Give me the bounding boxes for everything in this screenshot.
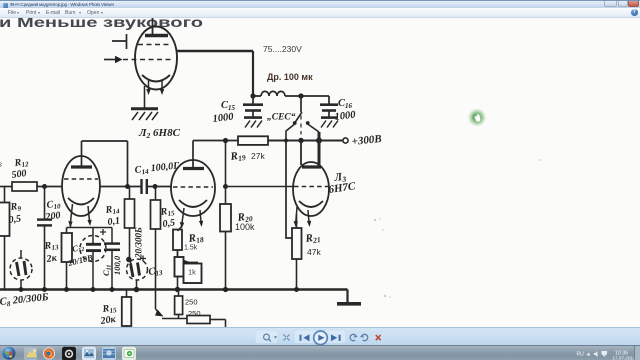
ground bus rail xyxy=(0,288,348,291)
node L3 anode1 on rail xyxy=(298,138,303,143)
label C13 xyxy=(148,265,164,279)
wire switch-left contact down to R21 xyxy=(286,141,293,239)
node R19 left branch xyxy=(223,138,228,143)
label C11 100,0 (rotated) xyxy=(101,255,122,276)
svg-text:С8 20/300Б: С8 20/300Б xyxy=(0,292,49,309)
wire L2a anode to C14 node xyxy=(82,141,128,187)
tube L2b envelope xyxy=(171,160,215,216)
menu bar xyxy=(0,8,640,18)
wire grid row to L3 xyxy=(226,186,295,188)
tube V1 grid-cap terminal xyxy=(112,34,127,49)
svg-text:R19: R19 xyxy=(229,149,247,164)
inductor L1 (choke) xyxy=(253,91,329,96)
node at C15 top xyxy=(250,93,255,98)
capacitor C15 xyxy=(243,96,263,117)
svg-text:250: 250 xyxy=(188,309,201,318)
label C14 100,0 xyxy=(134,160,181,177)
label R12 500 xyxy=(11,156,30,181)
taskbar xyxy=(0,345,640,360)
capacitor C10 xyxy=(37,187,52,291)
svg-text:47k: 47k xyxy=(307,247,321,257)
callout box 1k xyxy=(184,260,202,283)
svg-text:+300В: +300В xyxy=(351,133,382,148)
resistor R15 xyxy=(151,187,161,310)
switch S1 (mains) xyxy=(286,96,319,141)
faint smudges xyxy=(374,159,541,298)
wire V1 cathode to ground xyxy=(144,86,146,108)
label R9 0,5 xyxy=(8,201,22,226)
capacitor C8 (dashed circle) xyxy=(10,250,32,290)
wire R19 branch down to grid row xyxy=(225,141,227,187)
svg-text:RU: RU xyxy=(577,351,585,357)
tube L2b cathode xyxy=(179,200,207,207)
svg-text:1000: 1000 xyxy=(212,111,235,125)
resistor Rk 1k xyxy=(175,257,184,290)
svg-text:„СЕС“: „СЕС“ xyxy=(267,112,296,123)
tube L2a cathode xyxy=(68,198,94,205)
resistor R16 20k xyxy=(122,290,132,330)
svg-text:С15: С15 xyxy=(221,100,236,112)
node at switch top xyxy=(298,93,303,98)
label C15 1000 xyxy=(212,100,235,125)
tube V1 cathode xyxy=(142,75,170,82)
svg-text:20/300Б: 20/300Б xyxy=(134,227,144,259)
tube V1 anode xyxy=(145,34,168,37)
svg-text:Л2 6Н8С: Л2 6Н8С xyxy=(138,127,181,140)
label +300V xyxy=(351,133,382,148)
edge glyph xyxy=(0,159,2,169)
svg-text:С11: С11 xyxy=(101,265,113,276)
label R16 20k xyxy=(99,302,118,327)
resistor 250 (horizontal) xyxy=(187,316,226,331)
tube V1 envelope xyxy=(135,27,177,90)
resistor R21 xyxy=(292,214,302,290)
window title bar xyxy=(0,0,640,8)
svg-text:0,5: 0,5 xyxy=(8,213,22,226)
label R21 47k xyxy=(304,231,322,257)
node switch-left on rail xyxy=(284,139,288,143)
svg-text:500: 500 xyxy=(11,168,27,181)
ground (V1 cathode) xyxy=(131,109,158,120)
resistor R13 xyxy=(62,228,73,291)
svg-text:в: в xyxy=(0,159,2,169)
viewer control strip xyxy=(0,327,640,345)
tube L3 cathode xyxy=(299,201,323,207)
svg-text:250: 250 xyxy=(185,298,198,307)
resistor R9 xyxy=(0,187,10,291)
capacitor C9 (dashed circle, electrolytic) xyxy=(127,256,148,291)
tube L3 cathode arrows xyxy=(294,207,312,228)
svg-text:100,0: 100,0 xyxy=(112,255,122,275)
wire grid-leak jog with arrow xyxy=(155,309,187,319)
label R13 2k xyxy=(43,239,60,265)
node above C9 xyxy=(126,257,131,262)
node R20 top xyxy=(223,184,228,189)
tube L3 anode xyxy=(302,165,321,168)
resistor R19 xyxy=(238,136,343,145)
label R15 0,5 xyxy=(159,205,176,230)
label C12 20/10V xyxy=(66,241,94,268)
tube L2b anode xyxy=(183,141,204,169)
resistor R14 xyxy=(125,187,135,260)
svg-text:R13: R13 xyxy=(43,239,60,253)
svg-text:20/10В: 20/10В xyxy=(66,252,94,268)
svg-text:27k: 27k xyxy=(251,151,265,161)
capacitor C11 xyxy=(104,228,120,291)
resistor R20 xyxy=(220,187,231,291)
svg-text:0,1: 0,1 xyxy=(107,215,121,228)
node C10 top xyxy=(42,184,47,189)
svg-text:200: 200 xyxy=(44,210,61,223)
tube L2a cathode arrows xyxy=(68,204,91,228)
label R19 27k xyxy=(229,149,266,164)
tube L2b cathode arrows xyxy=(180,208,203,229)
grid wire row (R12 line) xyxy=(0,186,141,188)
svg-text:75....230V: 75....230V xyxy=(263,44,302,54)
tube L2a envelope xyxy=(62,156,100,216)
label 75....230V xyxy=(263,44,302,54)
label C16 1000 xyxy=(334,98,357,123)
bus junction dots xyxy=(19,287,299,293)
node C14 right xyxy=(153,184,158,189)
svg-text:Др. 100 мк: Др. 100 мк xyxy=(267,72,313,82)
tube V1 top lead xyxy=(152,17,154,36)
label tube L2 6N8S xyxy=(138,127,181,140)
tube L2a anode xyxy=(71,141,92,167)
svg-text:20к: 20к xyxy=(99,314,117,327)
label choke Др. 100 мк xyxy=(267,72,313,82)
cathode riser wire xyxy=(67,222,113,228)
wire L3 anode leads xyxy=(301,132,319,168)
label R18 1.5k xyxy=(184,231,205,252)
svg-text:R21: R21 xyxy=(304,231,321,246)
resistor R12 xyxy=(12,182,37,191)
tube L2a grid dashed xyxy=(64,178,98,180)
ground (C15) xyxy=(244,118,262,128)
svg-text:1k: 1k xyxy=(188,268,196,277)
tube V1 cathode arrows xyxy=(146,80,164,95)
svg-text:1.5k: 1.5k xyxy=(184,245,198,252)
tube V1 grid (dashed) xyxy=(123,45,172,60)
label 250 xyxy=(185,298,198,307)
node L3 anode2 on rail xyxy=(316,138,322,144)
svg-text:2к: 2к xyxy=(45,253,58,266)
label L3 6N7S xyxy=(328,170,357,195)
label R20 100k xyxy=(235,210,255,232)
label C10 200 xyxy=(44,198,62,223)
svg-text:6Н7С: 6Н7С xyxy=(328,180,357,196)
capacitor C14 xyxy=(142,179,172,194)
capacitor C16 xyxy=(320,96,338,117)
tube L3 envelope xyxy=(293,162,329,216)
svg-text:R9: R9 xyxy=(9,201,22,215)
ground (main, right) xyxy=(337,290,361,304)
label C8 20/300V xyxy=(0,292,49,309)
tube L3 grid dashed xyxy=(294,186,328,188)
input arrow xyxy=(104,56,123,63)
green cursor highlight xyxy=(468,108,487,127)
wire V1 anode to B+ node xyxy=(177,51,254,96)
B+ wire to R19 xyxy=(193,140,238,142)
caption text (scan) xyxy=(0,15,203,30)
svg-text:100k: 100k xyxy=(235,222,255,232)
resistor R18 xyxy=(173,226,182,257)
node C14 left xyxy=(125,184,130,189)
svg-text:0,5: 0,5 xyxy=(162,217,176,230)
label 20/300V (rotated) xyxy=(134,227,144,259)
label switch xyxy=(267,112,296,123)
tube L2b grid dashed xyxy=(173,186,213,188)
svg-text:С16: С16 xyxy=(338,98,353,110)
label 250 (second) xyxy=(188,309,201,318)
svg-text:17.07.2014: 17.07.2014 xyxy=(613,355,636,360)
capacitor C12 (dashed circle, electrolytic) xyxy=(80,228,106,291)
terminal +300V xyxy=(343,138,348,143)
ground (C16) xyxy=(321,118,338,128)
resistor 250 (vertical) xyxy=(175,290,183,319)
label R14 0,1 xyxy=(104,203,121,228)
